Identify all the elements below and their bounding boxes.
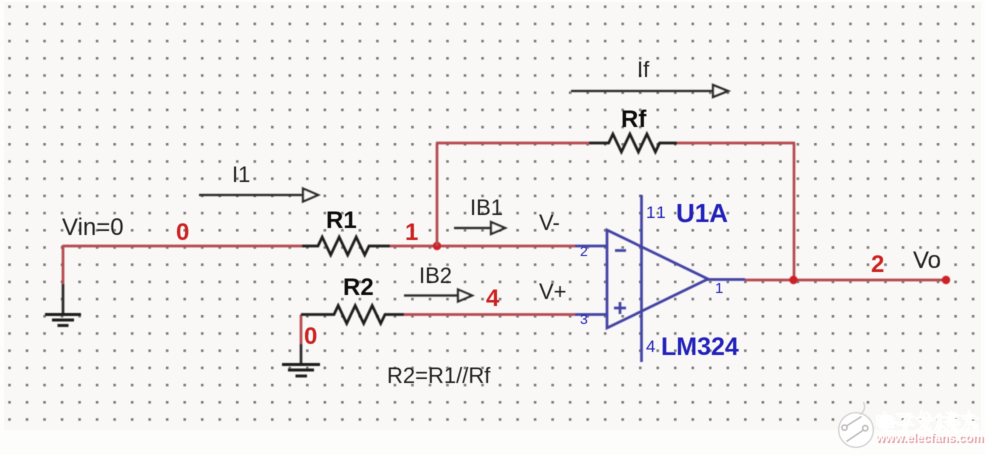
ground symbol (second, node 0) [282,365,320,377]
svg-text:R2=R1//Rf: R2=R1//Rf [387,363,491,388]
svg-text:V+: V+ [539,279,567,304]
svg-text:R2: R2 [343,274,374,301]
op-amp input stub pin 2 [575,245,607,248]
svg-text:R1: R1 [326,207,357,234]
svg-text:1: 1 [405,219,418,246]
op-amp input stub pin 3 [575,313,607,316]
op-amp output stub pin 1 [707,278,745,281]
ground symbol (left, node 0) [45,315,81,326]
op-amp power pin line (11 top / 4 bottom) [640,195,643,362]
output junction dot [789,276,797,284]
wire: R2 to op-amp non-inverting input [404,313,575,316]
svg-text:2: 2 [580,243,588,259]
Vo terminal dot [942,276,950,284]
wire: feedback top left horizontal to Rf [436,142,589,145]
resistor R2 with corner lead [301,306,404,324]
烧 [935,411,958,431]
svg-text:Vo: Vo [913,247,941,274]
wire: R2 ground lead (black part) [300,344,303,364]
arrow IB2 [404,290,472,302]
svg-text:www.elecfans.com: www.elecfans.com [875,431,984,445]
svg-text:4: 4 [486,285,500,312]
arrow If [571,85,728,97]
resistor Rf [589,134,677,152]
svg-text:4: 4 [646,337,655,356]
op-amp plus sign [614,302,626,314]
wire: vertical from Vin corner down toward ground (red part) [62,245,65,284]
op-amp minus sign [615,249,626,252]
svg-text:IB1: IB1 [470,195,503,220]
svg-text:Vin=0: Vin=0 [62,214,124,241]
wire: vertical ground lead (black part) [62,284,65,314]
arrow IB1 [454,222,505,234]
watermark text www.elecfans.com [875,431,985,446]
svg-text:3: 3 [580,311,588,327]
resistor R1 [302,237,390,255]
node 1 junction dot [433,242,441,250]
svg-text:If: If [637,57,650,82]
svg-text:1: 1 [715,280,723,297]
wire: Rf to right vertical [677,142,795,145]
电 [877,412,892,431]
wire: feedback vertical left [436,143,439,246]
svg-text:U1A: U1A [676,198,728,228]
友 [961,411,976,431]
svg-text:LM324: LM324 [661,333,739,361]
watermark text 电子发烧友 (hand-drawn strokes) [877,411,979,434]
wire: R2 corner vertical (red part) [300,315,303,345]
svg-text:2: 2 [871,251,884,278]
svg-text:0: 0 [176,219,189,246]
arrow I1 [199,189,318,202]
svg-text:IB2: IB2 [419,263,452,288]
wire: Vin node horizontal to R1 [63,245,302,248]
svg-text:I1: I1 [232,162,250,187]
wire: output to Vo [745,279,947,282]
op-amp U1A triangle [607,230,708,328]
子 [895,414,912,431]
svg-text:V-: V- [539,210,560,235]
svg-text:11: 11 [646,203,668,222]
svg-text:Rf: Rf [621,106,647,133]
svg-text:0: 0 [304,323,317,350]
watermark logo circle [839,402,874,447]
wire: feedback vertical right down to output [793,143,796,280]
发 [916,411,931,431]
wire: R1 to op-amp inverting input [390,245,575,248]
